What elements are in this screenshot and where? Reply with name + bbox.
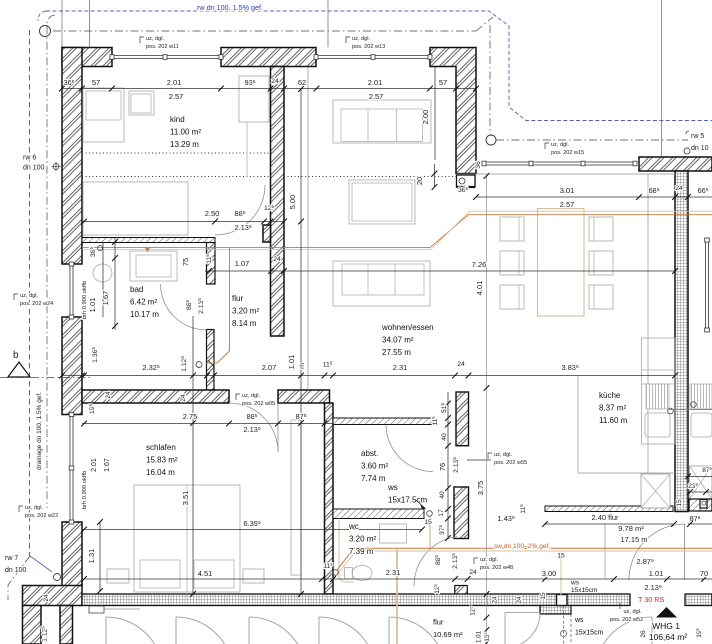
svg-text:15x15cm: 15x15cm bbox=[571, 587, 597, 594]
svg-text:dn 100: dn 100 bbox=[5, 567, 27, 574]
svg-text:40: 40 bbox=[439, 491, 446, 499]
svg-text:3.60 m²: 3.60 m² bbox=[361, 462, 388, 471]
svg-text:3.00: 3.00 bbox=[542, 569, 557, 578]
svg-text:1.31: 1.31 bbox=[87, 549, 96, 564]
svg-text:b: b bbox=[13, 350, 19, 361]
svg-text:küche: küche bbox=[599, 391, 621, 400]
svg-text:dn 10: dn 10 bbox=[691, 145, 709, 152]
window living south bbox=[484, 161, 635, 163]
svg-text:24: 24 bbox=[516, 596, 523, 604]
svg-text:1.07: 1.07 bbox=[235, 259, 250, 268]
svg-text:3.20 m²: 3.20 m² bbox=[232, 307, 259, 316]
svg-text:bad: bad bbox=[130, 285, 143, 294]
wall stub flur bbox=[455, 586, 468, 595]
terrace edge line x486 bbox=[486, 174, 488, 644]
kind desk bbox=[129, 91, 154, 115]
wall bottom-left step vertical bbox=[23, 606, 42, 644]
wall top-right corner L bbox=[430, 48, 476, 174]
svg-text:2.75: 2.75 bbox=[183, 412, 198, 421]
svg-text:24: 24 bbox=[469, 569, 477, 576]
living couch bbox=[333, 261, 430, 306]
svg-text:15x15cm: 15x15cm bbox=[575, 630, 604, 637]
kueche boundary left bbox=[577, 375, 579, 473]
wall wc top thin bbox=[333, 509, 424, 519]
wall exterior left mid bbox=[62, 317, 82, 415]
svg-text:1.01: 1.01 bbox=[649, 569, 664, 578]
svg-text:dn 100: dn 100 bbox=[23, 165, 45, 172]
dotted roof line 1 bbox=[82, 152, 271, 154]
pipe wc vertical bbox=[339, 520, 354, 582]
svg-text:36: 36 bbox=[475, 161, 482, 169]
svg-text:70: 70 bbox=[700, 569, 708, 578]
svg-text:7.39 m: 7.39 m bbox=[349, 547, 374, 556]
svg-text:8.37 m²: 8.37 m² bbox=[599, 404, 626, 413]
svg-text:pos. 202 w15: pos. 202 w15 bbox=[551, 150, 584, 156]
svg-text:24: 24 bbox=[105, 391, 112, 399]
bad tub bbox=[130, 251, 177, 281]
door bad bbox=[161, 284, 207, 330]
svg-text:11.60 m: 11.60 m bbox=[599, 416, 628, 425]
drain circle rw5 bbox=[486, 135, 496, 145]
wall schlafen top right bbox=[278, 390, 330, 403]
pipe circle bad bbox=[98, 246, 103, 251]
dim vertical x193 schlafen bbox=[192, 316, 194, 594]
door lower corridor 3 bbox=[249, 617, 306, 644]
dim chain y423 bbox=[82, 423, 333, 425]
pipe circle ws bbox=[427, 511, 433, 517]
wall face line y174 bbox=[456, 173, 675, 175]
dim chain top y86 bbox=[62, 88, 476, 90]
dining chairs bbox=[500, 217, 524, 241]
svg-text:2.01: 2.01 bbox=[167, 78, 182, 87]
svg-text:15x17.5cm: 15x17.5cm bbox=[388, 496, 427, 505]
svg-text:106,64 m²: 106,64 m² bbox=[649, 632, 687, 642]
svg-text:2.01: 2.01 bbox=[91, 458, 98, 472]
wall bottom-left step horizontal bbox=[23, 586, 83, 606]
ws duct box in band bbox=[557, 595, 568, 606]
dim vertical x486 ticks bbox=[484, 173, 490, 179]
wall jamb kind door bbox=[263, 225, 271, 242]
svg-text:2.00: 2.00 bbox=[421, 110, 430, 125]
svg-text:11.00 m²: 11.00 m² bbox=[170, 128, 201, 137]
dim x434 ticks bbox=[432, 171, 438, 177]
svg-text:4.01: 4.01 bbox=[475, 281, 484, 296]
dim vertical x115 bad bbox=[114, 238, 116, 330]
wall bottom-left inner vertical bbox=[60, 606, 73, 644]
dim schlafen y579 bbox=[84, 578, 712, 580]
svg-text:uz, dgl.: uz, dgl. bbox=[146, 36, 164, 42]
svg-text:drainage dn 100, 1.5% gef.: drainage dn 100, 1.5% gef. bbox=[36, 392, 43, 470]
svg-text:2.31: 2.31 bbox=[393, 363, 408, 372]
svg-text:rw 6: rw 6 bbox=[23, 155, 36, 162]
svg-text:pos. 202 w48: pos. 202 w48 bbox=[480, 565, 513, 571]
door schlafen bbox=[229, 403, 278, 452]
svg-text:brh 0.900 okffb: brh 0.900 okffb bbox=[82, 281, 88, 320]
door lower corridor 4 bbox=[319, 617, 376, 644]
dining table tan bbox=[538, 209, 585, 317]
pipe sw main horizontal bbox=[82, 215, 712, 248]
svg-text:8.14 m: 8.14 m bbox=[232, 319, 257, 328]
svg-text:rh: rh bbox=[299, 363, 306, 369]
svg-text:wohnen/essen: wohnen/essen bbox=[381, 323, 434, 332]
svg-text:24: 24 bbox=[675, 185, 683, 192]
svg-text:76: 76 bbox=[438, 463, 447, 471]
svg-text:3.20 m²: 3.20 m² bbox=[349, 535, 376, 544]
svg-text:uz, dgl.: uz, dgl. bbox=[20, 293, 38, 299]
flur edge line x605 bbox=[604, 524, 606, 578]
bad washbasin bbox=[93, 264, 112, 282]
door lower corridor right bbox=[595, 617, 652, 644]
svg-text:ws: ws bbox=[387, 483, 398, 492]
door lower stem 4 bbox=[318, 617, 320, 644]
svg-text:pos. 202 w13: pos. 202 w13 bbox=[352, 44, 385, 50]
svg-text:15: 15 bbox=[424, 519, 432, 526]
svg-text:pos. 202 w55: pos. 202 w55 bbox=[494, 460, 527, 466]
leader line x62 bbox=[61, 0, 63, 47]
window top 1 bbox=[112, 55, 221, 57]
pipe dashed below band bbox=[563, 606, 565, 644]
terrace edge line x648 bbox=[647, 174, 649, 473]
door wohnen leaf bbox=[684, 524, 686, 580]
kueche drainer bbox=[646, 384, 669, 409]
svg-text:ws: ws bbox=[574, 617, 584, 624]
dim x448 ticks bbox=[445, 401, 451, 407]
svg-text:62: 62 bbox=[298, 78, 306, 87]
svg-text:flur: flur bbox=[433, 618, 444, 627]
band step piece bbox=[540, 606, 571, 615]
blue roof drain line rw dn 100 bbox=[46, 11, 712, 121]
svg-text:1.01: 1.01 bbox=[476, 630, 483, 643]
door lower stem 3 bbox=[248, 617, 250, 644]
rw7 connector bbox=[30, 556, 52, 572]
svg-text:wc: wc bbox=[348, 522, 359, 531]
wall jamb bad door bbox=[207, 243, 216, 285]
window schlafen left bbox=[69, 415, 71, 523]
wall central vertical bbox=[271, 67, 285, 337]
dotted roof line 2 bbox=[82, 176, 271, 178]
svg-text:rw dn 100, 1.5% gef.: rw dn 100, 1.5% gef. bbox=[197, 3, 263, 12]
orange arrow bad bbox=[145, 248, 150, 252]
whg triangle bbox=[656, 607, 677, 618]
svg-text:57: 57 bbox=[92, 78, 100, 87]
door lower stem right bbox=[651, 617, 653, 644]
dash-dot boundary top bbox=[53, 30, 476, 32]
dim schlafen y529 bbox=[84, 529, 422, 531]
dim flur y271 bbox=[205, 270, 675, 272]
svg-text:17: 17 bbox=[438, 509, 445, 517]
svg-text:rw 7: rw 7 bbox=[5, 555, 18, 562]
dash-dot corner bottom-left bbox=[8, 556, 30, 600]
svg-text:7.26: 7.26 bbox=[472, 260, 487, 269]
window top 2 bbox=[316, 55, 430, 57]
dash-dot line to rw5 bbox=[496, 139, 688, 141]
dim kueche flur y524 bbox=[545, 523, 674, 525]
svg-text:WHG 1: WHG 1 bbox=[652, 621, 680, 631]
kind bed bbox=[83, 88, 124, 142]
svg-text:1.67: 1.67 bbox=[104, 458, 111, 472]
svg-text:ws: ws bbox=[570, 580, 580, 587]
ws1 arrow bbox=[420, 504, 426, 510]
svg-text:kind: kind bbox=[170, 115, 185, 124]
svg-text:16.04 m: 16.04 m bbox=[146, 468, 175, 477]
wall schlafen top left bbox=[82, 390, 229, 403]
dim vertical x301 ticks bbox=[298, 86, 304, 92]
svg-text:24: 24 bbox=[43, 594, 50, 602]
svg-text:uz, dgl.: uz, dgl. bbox=[242, 393, 260, 399]
pipe sw dn 100 horizontal bbox=[337, 548, 712, 570]
svg-text:34.07 m²: 34.07 m² bbox=[382, 336, 414, 345]
door schlafen leaf bbox=[277, 403, 279, 452]
door kind bbox=[215, 185, 265, 235]
dim vertical x448 abst bbox=[447, 392, 449, 538]
svg-text:24: 24 bbox=[492, 596, 499, 604]
pipe down through band bbox=[396, 549, 398, 644]
svg-text:pos. 202 w24: pos. 202 w24 bbox=[20, 301, 53, 307]
neighbor drainer bbox=[690, 384, 712, 409]
door abst bbox=[386, 425, 433, 472]
svg-text:7.74 m: 7.74 m bbox=[361, 474, 386, 483]
kind cabinet bbox=[83, 182, 188, 235]
dim right small y492 bbox=[688, 491, 712, 493]
dim x100 ticks bbox=[97, 519, 103, 525]
pipe ws15 vertical bbox=[560, 552, 562, 595]
svg-text:brh 0.900 okffb: brh 0.900 okffb bbox=[82, 471, 88, 510]
wc washbasin bbox=[380, 524, 407, 543]
band corridor checker right bbox=[685, 594, 712, 606]
leader line x328 bbox=[327, 0, 329, 47]
kueche sink bbox=[645, 413, 670, 437]
svg-text:27.55 m: 27.55 m bbox=[382, 348, 411, 357]
svg-text:2.40 flur: 2.40 flur bbox=[591, 513, 619, 522]
svg-text:uz, dgl.: uz, dgl. bbox=[624, 609, 642, 615]
wall abst top thin bbox=[333, 418, 434, 425]
black wall piece bottom-right bbox=[689, 499, 712, 511]
svg-text:1.01: 1.01 bbox=[287, 355, 296, 370]
shaft square kitchen bbox=[641, 474, 670, 508]
svg-text:24: 24 bbox=[180, 394, 187, 402]
door small flur bbox=[504, 613, 506, 644]
svg-text:abst.: abst. bbox=[361, 449, 378, 458]
wall bad top thin bbox=[82, 238, 215, 243]
svg-text:pos. 202 w05: pos. 202 w05 bbox=[242, 401, 275, 407]
wall exterior left lower bbox=[62, 522, 82, 586]
svg-text:uz, dgl.: uz, dgl. bbox=[25, 505, 43, 511]
svg-text:uz, dgl.: uz, dgl. bbox=[551, 142, 569, 148]
living coffee table bbox=[349, 180, 415, 224]
svg-text:10.69 m²: 10.69 m² bbox=[433, 630, 463, 639]
svg-text:75: 75 bbox=[181, 258, 190, 266]
kueche counter bbox=[642, 338, 676, 444]
dim kind bottom y221 bbox=[82, 221, 284, 223]
wall ws duct block bbox=[454, 487, 469, 539]
svg-text:pos. 202 w11: pos. 202 w11 bbox=[146, 44, 179, 50]
kind wardrobe bbox=[239, 76, 269, 122]
window neighbor right bbox=[705, 240, 707, 330]
dim chain y375 bbox=[62, 375, 675, 377]
svg-text:3.75: 3.75 bbox=[476, 481, 485, 496]
svg-text:24: 24 bbox=[457, 361, 465, 368]
door lower stem 5 bbox=[388, 617, 390, 644]
wall top-right exterior bbox=[639, 157, 712, 171]
svg-text:T 30 RS: T 30 RS bbox=[638, 595, 664, 604]
svg-text:2.31: 2.31 bbox=[386, 568, 401, 577]
pipe connection circle flur bbox=[196, 362, 202, 368]
svg-text:24: 24 bbox=[271, 78, 279, 85]
dim right small y476 bbox=[685, 475, 712, 477]
door lower corridor 1 bbox=[106, 617, 163, 644]
door lower stem 1 bbox=[105, 617, 107, 644]
wall top-left corner block bbox=[62, 48, 112, 67]
dash-dot boundary left bbox=[29, 30, 31, 556]
small box left band bbox=[89, 606, 104, 613]
svg-text:1.67: 1.67 bbox=[101, 291, 110, 306]
door lower stem 2 bbox=[175, 617, 177, 644]
svg-text:24: 24 bbox=[273, 256, 281, 263]
svg-text:9.78 m²: 9.78 m² bbox=[618, 524, 644, 533]
svg-text:40: 40 bbox=[441, 433, 448, 441]
svg-text:uz, dgl.: uz, dgl. bbox=[480, 557, 498, 563]
svg-text:15: 15 bbox=[540, 592, 547, 600]
dim x193 ticks bbox=[190, 373, 196, 379]
svg-text:uz, dgl.: uz, dgl. bbox=[352, 36, 370, 42]
pipe branch flur down bbox=[206, 248, 230, 363]
neighbor sink bbox=[691, 413, 712, 437]
svg-text:pos. 202 w52: pos. 202 w52 bbox=[610, 617, 643, 623]
band corridor checker left bbox=[82, 594, 630, 606]
dim vertical x103 bad bbox=[102, 242, 104, 317]
kueche boundary bottom bbox=[578, 472, 675, 474]
dim chain right-top y197 bbox=[476, 196, 712, 198]
column box below wall bbox=[457, 175, 476, 187]
drain circle rw6 top bbox=[40, 26, 51, 37]
door wc bbox=[414, 537, 457, 587]
schlafen bed bbox=[134, 485, 240, 592]
svg-text:3.01: 3.01 bbox=[560, 186, 575, 195]
svg-text:10.17 m: 10.17 m bbox=[130, 310, 159, 319]
shaft square neighbor bbox=[690, 466, 712, 499]
svg-text:flur: flur bbox=[232, 294, 243, 303]
dim x115 ticks bbox=[112, 239, 118, 245]
pipe kueche circles bbox=[668, 408, 674, 414]
svg-text:6.42 m²: 6.42 m² bbox=[130, 298, 157, 307]
drain symbol rw6 bbox=[53, 164, 59, 170]
pipe circle wc bbox=[333, 570, 339, 576]
svg-text:3.51: 3.51 bbox=[181, 491, 190, 506]
dash-dot boundary right-vertical bbox=[489, 25, 491, 134]
wall top B bbox=[221, 48, 316, 67]
svg-text:15: 15 bbox=[676, 499, 683, 507]
pipe ws vertical bbox=[429, 516, 431, 549]
schlafen nightstand right bbox=[243, 569, 264, 583]
svg-text:pos. 202 w22: pos. 202 w22 bbox=[25, 513, 58, 519]
door lower corridor 5 bbox=[389, 617, 446, 644]
svg-text:schlafen: schlafen bbox=[146, 443, 176, 452]
wall kueche bottom thin bbox=[545, 506, 673, 512]
svg-text:uz, dgl.: uz, dgl. bbox=[494, 452, 512, 458]
svg-text:5.00: 5.00 bbox=[288, 195, 297, 210]
svg-text:15: 15 bbox=[557, 553, 565, 560]
party wall grid hatch bbox=[675, 171, 688, 512]
svg-text:17.15 m: 17.15 m bbox=[620, 535, 647, 544]
svg-text:15.83 m²: 15.83 m² bbox=[146, 456, 178, 465]
wall schlafen-wc vertical bbox=[325, 403, 334, 594]
door lower corridor 2 bbox=[176, 617, 233, 644]
svg-text:sw dn 100–2% gef.: sw dn 100–2% gef. bbox=[494, 543, 550, 550]
wall abst-right block bbox=[456, 392, 469, 446]
svg-text:2.57: 2.57 bbox=[369, 92, 384, 101]
dim vertical x434 small bbox=[434, 164, 436, 187]
svg-text:26: 26 bbox=[640, 630, 647, 638]
wc toilet bbox=[352, 566, 372, 581]
svg-text:57: 57 bbox=[439, 78, 447, 87]
svg-text:rw 5: rw 5 bbox=[691, 133, 704, 140]
schlafen nightstand left bbox=[107, 569, 129, 583]
window bad left bbox=[69, 264, 71, 317]
dim right small y524 bbox=[688, 523, 712, 525]
dim vertical x301 bbox=[300, 89, 302, 594]
dim vertical x100 schlafen-l bbox=[99, 522, 101, 591]
svg-text:1.01: 1.01 bbox=[88, 298, 97, 313]
schlafen wardrobe bbox=[291, 420, 301, 575]
leader line x89 bbox=[89, 0, 91, 47]
svg-text:2.57: 2.57 bbox=[560, 200, 575, 209]
flur boundary x308 bbox=[307, 67, 309, 391]
leader line x661 bbox=[661, 0, 663, 157]
door wohnen bbox=[629, 524, 685, 580]
svg-text:20: 20 bbox=[415, 177, 424, 185]
dim vertical x435 wall 2.00 bbox=[434, 67, 436, 160]
svg-text:2.01: 2.01 bbox=[368, 78, 383, 87]
wall exterior left upper bbox=[62, 48, 82, 265]
wall jamb schlafen bbox=[207, 330, 215, 391]
gray dashed eave line bbox=[47, 15, 55, 508]
svg-text:13.29 m: 13.29 m bbox=[170, 140, 199, 149]
svg-text:4.51: 4.51 bbox=[198, 569, 213, 578]
leader uz w55 bbox=[467, 459, 491, 461]
living couch upper bbox=[333, 100, 431, 143]
svg-text:2.07: 2.07 bbox=[262, 363, 277, 372]
svg-text:2.50: 2.50 bbox=[205, 209, 220, 218]
svg-text:2.57: 2.57 bbox=[169, 92, 184, 101]
